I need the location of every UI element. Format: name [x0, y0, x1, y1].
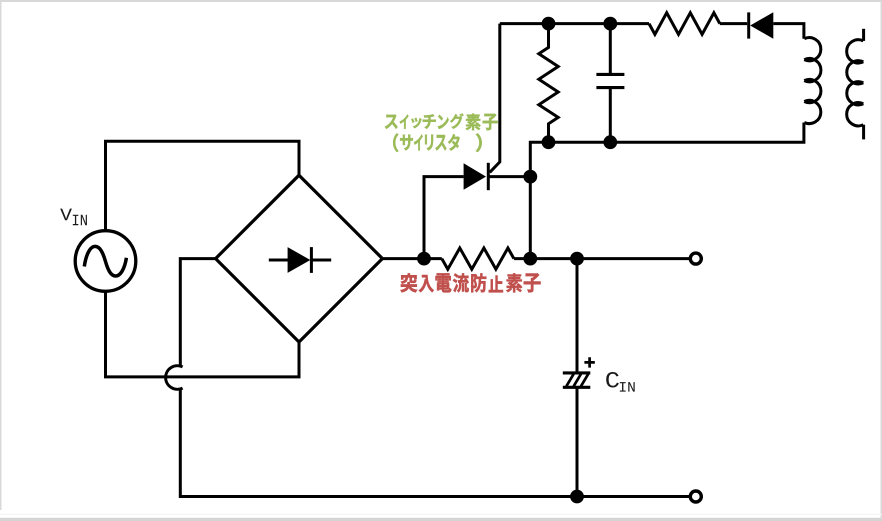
node resistor left	[417, 252, 431, 266]
wire V_IN top loop to bridge top	[106, 141, 300, 230]
node C_IN bottom	[570, 490, 584, 504]
label switching element (green) line1	[385, 113, 498, 130]
bridge diode leads	[269, 259, 289, 262]
bridge diode triangle	[288, 247, 311, 273]
wire thyristor branch left side	[424, 177, 464, 259]
wire snubber bottom rail	[530, 123, 804, 177]
wire resistor right lead to output terminal	[514, 257, 691, 260]
node C bottom	[603, 135, 617, 149]
wire thyristor cathode lead and right drop	[488, 177, 530, 259]
wire left branch lower to bottom rail	[180, 388, 691, 497]
capacitor C_IN plus sign	[584, 357, 594, 367]
wire hop over V_IN bottom wire	[166, 366, 183, 390]
wire V_IN bottom to bridge bottom	[106, 292, 300, 377]
capacitor C_IN plates	[563, 371, 591, 374]
bridge diode cathode bar	[310, 247, 313, 273]
node thyristor cathode junction	[523, 170, 537, 184]
capacitor C_IN top wire	[576, 259, 579, 373]
snubber capacitor C wires	[609, 24, 612, 75]
wire top rail resistor-to-diode	[720, 22, 747, 25]
capacitor C_IN bottom wire	[576, 387, 579, 496]
label V_IN	[60, 209, 72, 221]
node R top	[542, 17, 556, 31]
AC source V_IN circle	[75, 231, 136, 292]
wire bridge right vertex to inrush resistor	[382, 257, 441, 260]
output terminal + (open circle)	[690, 253, 701, 264]
wire thyristor gate	[490, 24, 500, 173]
thyristor cathode bar	[487, 163, 490, 190]
snubber capacitor C plates	[596, 73, 624, 76]
label switching element (green) line2	[393, 134, 482, 152]
thyristor triangle	[464, 163, 486, 190]
node C top	[603, 17, 617, 31]
wire diode to transformer primary top	[773, 24, 804, 39]
damper diode triangle (points left)	[750, 12, 773, 38]
bridge rectifier diamond	[216, 175, 383, 342]
snubber resistor R (vertical)	[539, 24, 558, 143]
label inrush (red)	[401, 273, 541, 292]
AC source sine wave	[84, 246, 126, 276]
node R bottom	[542, 135, 556, 149]
wire top rail	[500, 22, 649, 25]
label C_IN	[606, 372, 619, 387]
transformer primary winding L1	[804, 38, 821, 124]
transformer secondary winding L2	[847, 40, 864, 126]
transformer secondary stubs	[862, 29, 865, 41]
damper diode cathode bar	[747, 12, 750, 38]
output terminal - (open circle)	[690, 491, 701, 502]
node C_IN top	[570, 252, 584, 266]
damper resistor (top, horizontal)	[649, 13, 720, 35]
capacitor C_IN hatch slashes	[566, 374, 588, 386]
wire bridge left vertex to left branch corner	[180, 259, 215, 368]
inrush resistor zigzag	[442, 248, 514, 269]
node resistor right	[523, 252, 537, 266]
